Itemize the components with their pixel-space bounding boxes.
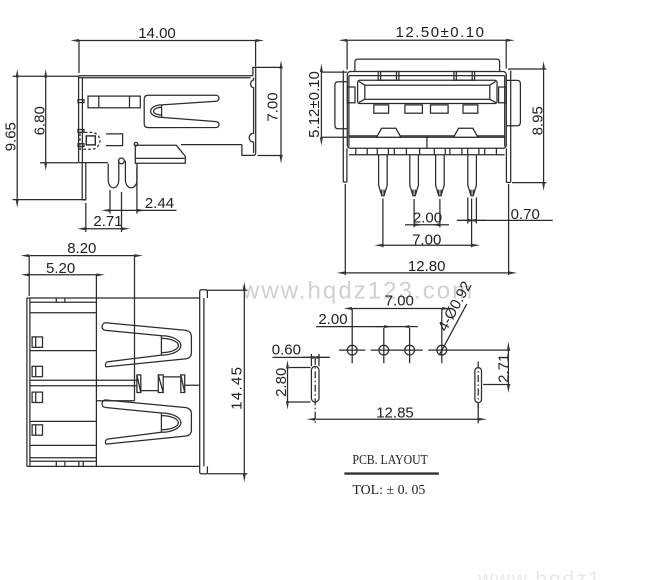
svg-text:2.00: 2.00: [413, 209, 442, 226]
side body top edge: [79, 76, 253, 78]
contact bar 2: [158, 375, 163, 393]
dim 2.71 pcb: [483, 350, 512, 384]
latch prong: [108, 161, 137, 188]
pin cross-section rect: [86, 136, 95, 145]
svg-text:2.44: 2.44: [145, 195, 174, 212]
right ear: [506, 80, 520, 125]
left ear: [335, 82, 348, 129]
svg-text:12.50±0.10: 12.50±0.10: [396, 24, 486, 41]
dim 8.95: [508, 69, 546, 183]
svg-text:TOL: ± 0. 05: TOL: ± 0. 05: [352, 483, 425, 498]
svg-text:2.00: 2.00: [318, 311, 347, 328]
svg-text:6.80: 6.80: [32, 106, 49, 135]
svg-text:PCB. LAYOUT: PCB. LAYOUT: [352, 453, 428, 468]
contact 1: [374, 105, 389, 113]
svg-text:14.00: 14.00: [138, 25, 176, 42]
right slot pad: [475, 368, 482, 403]
svg-text:0.70: 0.70: [511, 206, 540, 223]
left side clip: [347, 87, 355, 103]
wire channel line: [96, 400, 134, 402]
internal horizontals: [30, 313, 137, 446]
svg-text:14.45: 14.45: [229, 366, 246, 410]
prong pivot circle: [119, 158, 125, 164]
left slot pad: [311, 366, 319, 402]
dim 12.80: [345, 184, 508, 275]
dim 8.20: [29, 240, 134, 401]
hole 2: [371, 328, 397, 363]
svg-text:www.hqdz123.com: www.hqdz123.com: [241, 278, 474, 305]
contact 2: [405, 105, 423, 113]
top tab 1: [378, 72, 399, 81]
dim 0.60: [272, 342, 330, 367]
dim 7.00 pcb: [352, 293, 442, 310]
dim 9.65: [3, 76, 86, 199]
contact bar 1: [137, 375, 141, 393]
svg-text:9.65: 9.65: [3, 122, 20, 151]
contact connectors: [141, 377, 200, 391]
contact 3: [431, 105, 449, 113]
dim 14.45: [208, 290, 248, 474]
inner edges: [30, 298, 97, 466]
svg-text:5.12±0.10: 5.12±0.10: [306, 71, 323, 138]
center seam: [426, 136, 428, 148]
dim 2.00 front: [405, 199, 449, 227]
top tab 2: [454, 72, 475, 81]
svg-text:7.00: 7.00: [264, 92, 281, 121]
left mounting pin: [82, 163, 86, 200]
hole 1: [339, 309, 365, 364]
dim 12.50±0.10: [347, 24, 506, 70]
svg-text:0.60: 0.60: [272, 342, 301, 359]
bottom-right tab: [200, 466, 208, 474]
side body bottom-right edge: [181, 145, 256, 156]
floor bump 1: [377, 128, 401, 137]
svg-text:8.95: 8.95: [529, 106, 546, 135]
svg-text:12.80: 12.80: [408, 258, 446, 275]
dim 7.00 front: [383, 199, 472, 249]
svg-text:8.20: 8.20: [67, 240, 96, 257]
dim 2.00 pcb: [316, 311, 418, 328]
pin 3: [436, 155, 445, 196]
left leg: [343, 71, 347, 183]
dim 6.80: [32, 78, 79, 163]
dim 14.00: [79, 25, 256, 73]
tongue inner face: [365, 85, 490, 99]
contact 4: [463, 105, 478, 113]
edge ticks: [56, 298, 83, 466]
contact bar 3: [181, 375, 185, 393]
pin hole squares: [32, 337, 42, 435]
dim 12.85: [315, 404, 478, 423]
dim 2.71: [86, 192, 123, 232]
svg-text:7.00: 7.00: [385, 293, 414, 310]
floor bump 2: [454, 128, 478, 137]
shell inner side walls: [348, 76, 350, 147]
dim 5.20: [29, 260, 96, 298]
pin 2: [410, 155, 419, 196]
left slot center line: [314, 358, 316, 424]
slot bar: [88, 96, 140, 108]
internal divider vertical: [95, 298, 97, 466]
pin 1: [379, 155, 388, 196]
tongue bevels: [359, 81, 496, 102]
right leg: [506, 71, 510, 183]
svg-text:2.80: 2.80: [273, 368, 290, 397]
svg-text:2.71: 2.71: [495, 354, 512, 383]
dim 5.12±0.10: [306, 71, 347, 138]
dim 2.44: [110, 167, 177, 214]
dim 2.80: [273, 368, 311, 403]
pin 4: [468, 155, 477, 196]
shell top inner line: [349, 75, 505, 77]
cavity floor lines: [349, 136, 505, 137]
right slot center line: [477, 362, 479, 413]
svg-text:7.00: 7.00: [412, 231, 441, 248]
upper fork (top view): [102, 323, 191, 367]
shell outline: [347, 72, 506, 149]
open rect: [106, 134, 123, 146]
dim 7.00 side: [256, 67, 283, 155]
svg-text:2.71: 2.71: [93, 213, 122, 230]
plate bump: [134, 142, 138, 146]
base comb: [349, 148, 505, 154]
lower fork (top view): [102, 400, 191, 444]
back housing: [355, 59, 500, 71]
hole 3: [396, 328, 422, 363]
title underline: [344, 472, 439, 474]
side body bottom-left edge: [79, 162, 108, 164]
side body right face: [249, 67, 256, 153]
dim 0.70: [457, 198, 553, 224]
svg-text:www.hqdz1: www.hqdz1: [477, 568, 602, 580]
hole 4: [428, 309, 510, 364]
top-right tab: [200, 290, 208, 298]
side body left edge: [78, 76, 84, 163]
top view body outline: [27, 298, 204, 466]
svg-text:12.85: 12.85: [376, 405, 414, 422]
svg-text:5.20: 5.20: [46, 260, 75, 277]
spring fork (side): [144, 95, 219, 127]
pcb plate: [135, 145, 185, 163]
right side clip: [499, 87, 507, 103]
leader 4-Ø0.92: [435, 279, 476, 356]
tongue outer: [358, 80, 497, 103]
dashed pin housing: [80, 132, 100, 149]
